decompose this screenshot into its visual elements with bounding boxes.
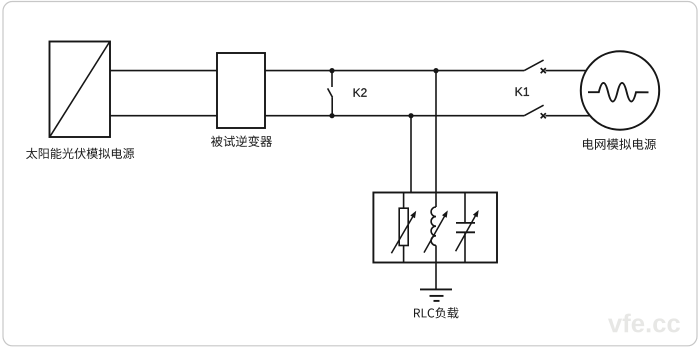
watermark vfe.cc (608, 314, 680, 333)
resistor R top lead (403, 193, 405, 209)
resistor R arrowhead (410, 211, 416, 218)
wire: top after K1 to grid source (545, 70, 600, 72)
label: grid simulator 电网模拟电源 (583, 138, 656, 149)
switch K2 bottom stub (331, 97, 333, 115)
label: switch K2 (354, 88, 367, 96)
resistor R variability arrow line (391, 216, 413, 254)
label: inverter under test 被试逆变器 (211, 136, 272, 147)
switch K1 bottom contact x-mark (541, 113, 546, 118)
node junction dot top K2 (329, 68, 334, 73)
grid source sine waveform (588, 83, 649, 102)
inductor L arrowhead (442, 210, 448, 217)
resistor R bottom lead (403, 246, 405, 263)
wire: top node down through to inductor (435, 71, 437, 207)
ground symbol (420, 289, 452, 301)
capacitor C bottom lead (464, 232, 466, 262)
label: RLC load RLC负载 (414, 307, 459, 318)
switch K2 top stub (331, 71, 333, 87)
capacitor C bottom plate (456, 231, 475, 233)
grid simulator circle (581, 51, 659, 129)
switch K1 top contact x-mark (541, 68, 546, 73)
capacitor C top plate (456, 222, 475, 224)
capacitor C top lead (464, 193, 466, 223)
node junction dot bottom K2 (329, 113, 334, 118)
inductor L coil (431, 207, 436, 245)
inductor L bottom lead to ground (435, 245, 437, 289)
label: switch K1 (516, 87, 529, 96)
switch K1 bottom blade (524, 105, 543, 116)
wire: node to RLC box left branch (410, 116, 412, 193)
solar box diagonal (50, 42, 110, 137)
wire: inverter to K1 bottom (265, 115, 524, 117)
inverter under test box (217, 53, 265, 128)
wire: inverter to K1 top (265, 70, 524, 72)
RLC load box (373, 193, 497, 263)
node junction dot bottom RLC (408, 113, 413, 118)
solar PV simulator box (50, 42, 111, 138)
switch K2 blade (328, 88, 333, 97)
capacitor C arrowhead (473, 210, 479, 217)
capacitor C variability arrow line (456, 215, 476, 251)
wire: bottom after K1 to grid source (545, 115, 600, 117)
label: solar PV simulator 太阳能光伏模拟电源 (26, 148, 134, 159)
node junction dot top RLC (433, 68, 438, 73)
resistor R body (399, 208, 408, 245)
switch K1 top blade (524, 60, 543, 71)
wire: solar to inverter bottom (110, 115, 217, 117)
wire: solar to inverter top (110, 70, 217, 72)
inductor L variability arrow line (424, 215, 445, 252)
